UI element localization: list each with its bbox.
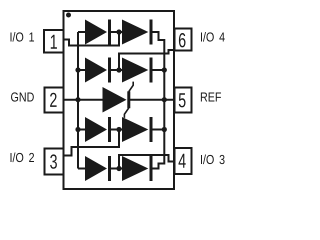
package outline <box>64 11 175 189</box>
diode D4 row2 <box>122 58 148 83</box>
pin 1 number <box>51 35 57 49</box>
wire row2 cathode <box>152 69 164 71</box>
pin 2 box <box>45 88 64 113</box>
node REF pin5 <box>162 97 167 102</box>
diode D6 row3 <box>122 117 148 142</box>
wire TVS to pin5 <box>130 99 175 101</box>
pin 5 box <box>175 88 192 113</box>
wire pin4 loop <box>119 155 175 169</box>
wire row1 anode <box>78 31 86 33</box>
node row2 GND <box>75 67 80 72</box>
node row4 mid <box>116 166 121 171</box>
pin 4 number <box>179 154 186 168</box>
wire row3 cathode <box>152 129 164 131</box>
wire GND to TVS <box>64 99 104 101</box>
node row2 REF <box>162 67 167 72</box>
node row3 GND <box>75 127 80 132</box>
pin boxes <box>44 29 192 175</box>
REF bus <box>153 32 165 169</box>
wire row4 anode <box>78 168 86 170</box>
label I/O 1 <box>10 32 34 42</box>
pin 6 box <box>175 29 192 51</box>
node row2 mid <box>116 67 121 72</box>
diode D1 row1 <box>85 20 107 45</box>
diode D5 row3 <box>85 117 107 142</box>
pin 1 box <box>44 30 64 53</box>
pin 2 number <box>50 93 56 107</box>
pin 1 marker dot <box>66 13 71 18</box>
wire row4 mid <box>111 168 123 170</box>
diode D7 row4 <box>85 156 107 181</box>
node GND pin2 <box>75 97 80 102</box>
wire pin3 loop <box>64 130 120 156</box>
node row3 REF <box>162 127 167 132</box>
wire row1 mid <box>111 31 123 33</box>
wire row3 anode <box>78 129 86 131</box>
TVS diode Z1 (triangle and cathode bar) <box>103 87 127 113</box>
wire row3 mid <box>111 129 123 131</box>
label REF <box>201 93 221 102</box>
label GND <box>11 92 34 101</box>
diode D3 row2 <box>85 58 107 83</box>
wire pin6 loop <box>119 50 175 70</box>
pin 3 box <box>45 149 64 175</box>
pin 4 box <box>175 148 192 174</box>
node row3 mid <box>116 127 121 132</box>
wire row2 mid <box>111 69 123 71</box>
label I/O 2 <box>10 153 34 163</box>
TVS diode Z1 zener cathode tails <box>124 82 133 118</box>
label I/O 4 <box>201 32 225 42</box>
pin 3 number <box>50 154 57 168</box>
node row1 mid <box>116 29 121 34</box>
pin 6 number <box>179 33 186 47</box>
diode D8 row4 <box>122 156 148 181</box>
label I/O 3 <box>201 155 225 165</box>
pin 5 number <box>179 93 186 107</box>
wire pin1 loop <box>64 32 120 46</box>
diode D2 row1 <box>122 20 148 45</box>
GND bus <box>77 32 79 169</box>
wire row2 anode <box>78 69 86 71</box>
